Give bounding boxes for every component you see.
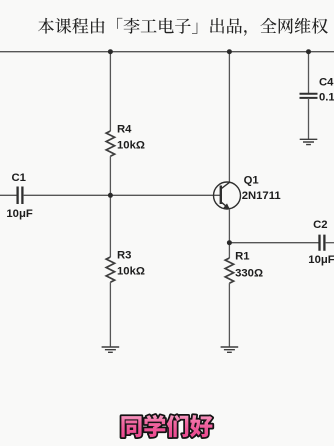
resistor R1 [225,258,233,283]
wire top supply rail [0,51,334,53]
wire emitter to node B [228,209,230,243]
resistor R4 [106,131,114,156]
transistor Q1 [214,182,241,209]
svg-text:R1: R1 [235,251,249,263]
capacitor C1 [18,187,23,205]
node B: emitter/R1/C2 junction [227,240,232,245]
wire R4 branch upper (rail to R4) [109,52,111,131]
ground below R1 [221,347,239,352]
wire R1 bottom to ground [228,283,230,347]
node rail/C4 junction [306,49,311,54]
svg-text:2N1711: 2N1711 [242,190,281,202]
svg-text:R3: R3 [117,250,131,262]
svg-text:Q1: Q1 [244,175,259,187]
node A: R4/R3/base junction [108,193,113,198]
wire C2 to right edge [325,242,334,244]
node rail/collector junction [227,49,232,54]
wire node B down to R1 [228,243,230,258]
wire C4 branch (rail to C4) [308,52,310,94]
svg-text:330Ω: 330Ω [235,268,263,280]
capacitor C2 [320,235,325,251]
caption: 本课程由「李工电子」出品，全网维权 [38,18,328,36]
svg-text:10μF: 10μF [6,208,32,220]
ground below R3 [102,347,120,352]
node rail/R4 junction [108,49,113,54]
svg-text:R4: R4 [117,124,132,136]
wire R3 bottom to ground [109,282,111,347]
wire C1 to base of Q1 [23,194,221,196]
wire input left segment [0,194,17,196]
wire C4 to ground [308,98,310,139]
svg-text:C2: C2 [313,219,327,231]
ground below C4 [300,139,318,144]
svg-text:10kΩ: 10kΩ [117,266,145,278]
svg-text:C4: C4 [319,77,334,89]
svg-text:10μF: 10μF [308,254,334,266]
capacitor C4 [300,94,318,98]
wire R4 bottom to node A [109,156,111,195]
resistor R3 [106,257,114,282]
wire node B to C2 [229,242,319,244]
svg-text:0.1μF: 0.1μF [319,91,334,103]
wire node A down to R3 [109,195,111,257]
wire collector branch (rail to Q1) [228,52,230,183]
svg-text:C1: C1 [12,172,26,184]
svg-text:10kΩ: 10kΩ [117,140,145,152]
